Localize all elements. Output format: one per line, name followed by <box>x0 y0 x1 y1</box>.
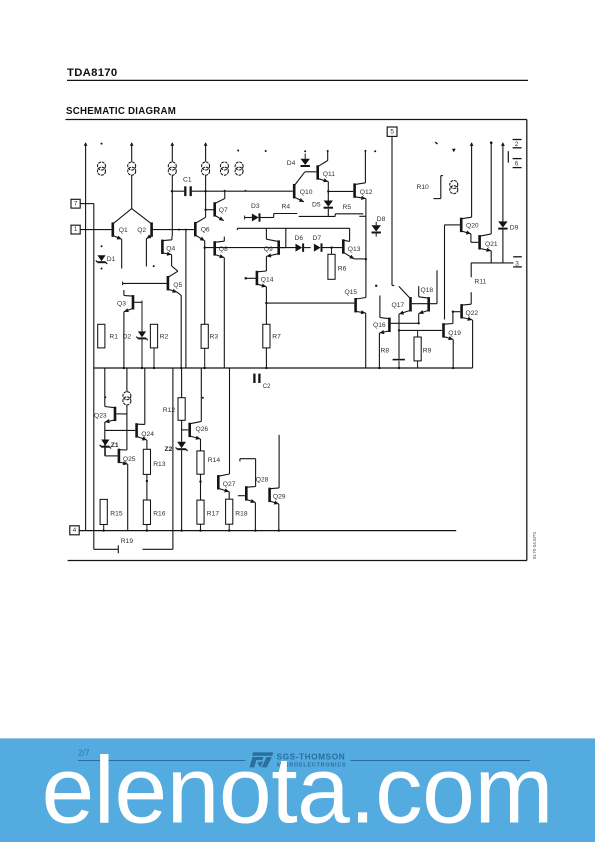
resistor R12 <box>181 368 183 398</box>
Q8 emitter wire down to ground rail <box>223 258 225 368</box>
svg-text:D9: D9 <box>510 224 519 231</box>
svg-text:Q27: Q27 <box>223 481 236 488</box>
resistor R18 <box>226 499 233 524</box>
wire Q6 base node down to ground rail <box>185 230 187 368</box>
long wire upper bus <box>237 227 349 229</box>
resistor R19 circuit <box>93 531 95 550</box>
lower supply rail <box>79 530 456 532</box>
svg-text:Q23: Q23 <box>94 412 107 419</box>
figure frame bottom edge <box>68 560 527 562</box>
svg-text:SCHEMATIC DIAGRAM: SCHEMATIC DIAGRAM <box>66 106 176 117</box>
wire R12 to Z2 / Q26 base <box>181 420 183 442</box>
Q2 emitter wire down <box>145 239 147 267</box>
Q26 emitter wire to R14 <box>200 439 202 451</box>
Q19 collector wire up to Q22 base <box>452 312 454 324</box>
wire Q2 base to Q6 base <box>153 229 194 231</box>
Q20 base wire <box>445 224 460 226</box>
resistor R2 <box>150 324 157 348</box>
wire Q11 emitter node to Q12 base <box>328 190 353 192</box>
resistor R6 <box>331 248 333 255</box>
svg-text:R19: R19 <box>121 538 134 545</box>
wire D5 to R4/R5 row <box>327 209 329 217</box>
svg-text:D8: D8 <box>377 216 386 223</box>
svg-text:R9: R9 <box>423 347 432 354</box>
svg-text:R13: R13 <box>153 461 166 468</box>
Q22 collector wire / resistor R11 gap <box>470 292 472 304</box>
resistor R9 <box>417 330 419 337</box>
resistor R4 <box>260 217 274 219</box>
Q11 collector wire up <box>327 152 329 161</box>
svg-text:Q15: Q15 <box>345 289 358 296</box>
wire I8 to Q23/Q24 <box>126 405 128 445</box>
transistor Q29 <box>268 488 271 502</box>
svg-text:Q24: Q24 <box>141 431 154 438</box>
Q22 emitter wire to rail corner <box>472 320 474 368</box>
wire Q17 emitter node to Q19 base <box>399 329 442 331</box>
power rail left <box>85 143 87 531</box>
current source I8 <box>126 368 128 392</box>
svg-text:C1: C1 <box>183 177 192 184</box>
svg-text:5: 5 <box>390 129 394 136</box>
supply node dots <box>265 150 267 152</box>
wire stub above Q17/Q18 base <box>436 270 438 303</box>
transistor Q12 <box>353 183 356 197</box>
current source I5 <box>220 162 228 170</box>
zener D1 <box>101 245 103 247</box>
wire upper rail to R19 <box>172 368 174 549</box>
wire Z2 to lower rail <box>181 450 183 530</box>
pin 2 <box>513 139 522 141</box>
transistor Q11 <box>316 165 319 179</box>
wire R13 to R16 <box>146 474 148 500</box>
diode D4 <box>304 150 306 152</box>
resistor R13 <box>143 449 150 474</box>
Q15 emitter wire down to rail <box>365 313 367 368</box>
svg-text:4: 4 <box>73 527 77 534</box>
current source I6 <box>235 162 243 170</box>
transistor Q5 <box>167 276 170 290</box>
Q23 emitter wire down <box>104 422 106 456</box>
wire pin7 to rail B <box>80 203 94 205</box>
Q9 collector wire up to bus <box>265 228 267 239</box>
svg-text:Q9: Q9 <box>264 246 273 253</box>
header rule <box>67 79 528 81</box>
wire C1 to Q10 base <box>192 190 293 192</box>
Q13 collector wire up to bus <box>349 228 351 241</box>
resistor R8 (bar) <box>393 359 405 361</box>
Q16 collector wire up <box>379 296 381 318</box>
svg-text:C2: C2 <box>263 384 271 390</box>
svg-text:Z2: Z2 <box>165 446 173 453</box>
svg-text:Q25: Q25 <box>123 456 136 463</box>
svg-text:D5: D5 <box>312 201 321 208</box>
resistor R15 <box>100 499 107 524</box>
current source I2 <box>131 143 133 162</box>
node dot below Q2 <box>153 265 155 267</box>
zener Z2 <box>177 442 186 448</box>
capacitor C2 <box>253 374 255 383</box>
transistor Q16 <box>388 318 391 332</box>
Q4 collector stub to I3 <box>171 236 173 240</box>
svg-text:Q13: Q13 <box>348 246 361 253</box>
Q20 emitter to Q21 base <box>470 234 472 243</box>
transistor Q23 <box>114 407 117 421</box>
svg-text:Q7: Q7 <box>219 207 228 214</box>
svg-text:Q28: Q28 <box>256 476 269 483</box>
svg-text:R16: R16 <box>153 510 166 517</box>
Q9 base stub <box>280 247 286 249</box>
footer rule right <box>350 760 530 762</box>
wire I2 to Q1/Q2 collectors <box>131 175 133 208</box>
current source I4 <box>205 143 207 162</box>
Q17 emitter wire down through R8 <box>398 314 400 359</box>
svg-text:8170-04.EPS: 8170-04.EPS <box>532 532 537 559</box>
transistor Q22 <box>460 304 463 318</box>
pin 6 <box>507 151 509 163</box>
wire Q20 base down to Q19 collector <box>444 225 446 320</box>
Q18 emitter wire down <box>418 314 420 324</box>
Q25 collector wire <box>126 445 128 450</box>
transistor Q19 <box>442 323 445 337</box>
Q24 base wire <box>105 429 135 431</box>
svg-text:R17: R17 <box>207 510 220 517</box>
svg-text:Q4: Q4 <box>166 245 175 252</box>
Q24 collector wire up to rail <box>144 368 146 424</box>
Q28 base stub <box>238 495 245 497</box>
transistor Q17 <box>409 297 412 311</box>
transistor Q7 <box>213 202 216 216</box>
Q21 collector wire up <box>490 143 492 234</box>
resistor R17 <box>197 500 204 524</box>
Q23 base stub <box>116 413 127 415</box>
svg-text:R18: R18 <box>235 510 248 517</box>
diode D7 <box>314 244 321 252</box>
Q25 base wire <box>105 455 118 457</box>
svg-text:R2: R2 <box>160 333 169 340</box>
svg-text:Q26: Q26 <box>196 426 209 433</box>
pin 5 <box>387 127 397 136</box>
Q11 emitter wire to D5 <box>327 182 329 201</box>
Q24 emitter wire to R13 <box>146 440 148 449</box>
svg-text:Z1: Z1 <box>111 442 119 449</box>
Q14 base wire <box>245 277 247 279</box>
transistor Q24 <box>135 423 138 437</box>
svg-text:elenota.com: elenota.com <box>42 737 554 842</box>
Q8 collector stub <box>223 237 225 242</box>
Q14 emitter wire <box>265 287 267 303</box>
Q17 base wire to Q18 <box>412 303 437 305</box>
Q27 emitter wire to R18 <box>228 492 230 499</box>
transistor Q26 <box>188 423 191 437</box>
svg-text:R15: R15 <box>110 510 123 517</box>
svg-text:R12: R12 <box>163 407 176 414</box>
Q11 base wire <box>305 171 317 173</box>
Q29 emitter wire down to rail <box>278 504 280 531</box>
transistor Q13 <box>342 239 345 253</box>
Q15 collector wire <box>365 292 367 298</box>
svg-text:R11: R11 <box>475 278 487 285</box>
transistor Q6 <box>194 222 197 236</box>
svg-text:R5: R5 <box>343 204 352 211</box>
Q5 base wire <box>123 282 167 284</box>
svg-text:Q21: Q21 <box>485 241 498 248</box>
svg-text:1: 1 <box>74 226 78 233</box>
Q28 collector wire (up and left) <box>255 459 257 487</box>
transistor Q25 <box>118 449 121 463</box>
Q27 collector wire up to rail <box>229 368 231 474</box>
R7 to ground rail <box>265 348 267 368</box>
wire Q16 base to Q18 emitter <box>391 322 419 324</box>
transistor Q1 <box>112 222 115 236</box>
svg-text:D3: D3 <box>251 203 260 210</box>
transistor Q27 <box>217 475 220 489</box>
svg-text:R7: R7 <box>272 333 281 340</box>
transistor Q21 <box>478 235 481 249</box>
svg-text:Q16: Q16 <box>373 322 386 329</box>
svg-text:Q17: Q17 <box>392 302 405 309</box>
wire Q9 emitter node <box>265 256 267 258</box>
capacitor C1 <box>172 190 184 192</box>
svg-text:Q1: Q1 <box>119 227 128 234</box>
transistor Q2 <box>150 222 153 236</box>
figure frame right edge <box>526 120 528 561</box>
Q25 emitter wire down to rail <box>127 464 129 530</box>
Q14 collector wire <box>265 259 267 272</box>
svg-text:Q18: Q18 <box>421 287 434 294</box>
resistor R16 <box>143 500 150 525</box>
svg-text:7: 7 <box>74 200 78 207</box>
svg-text:R6: R6 <box>338 266 347 273</box>
Q15 base wire <box>266 302 354 304</box>
Q13 emitter wire to Q12 emitter line <box>354 258 366 260</box>
svg-text:R1: R1 <box>109 333 118 340</box>
pin 4 <box>70 526 79 535</box>
diode D5 <box>324 201 333 207</box>
Q16 emitter wire down to rail <box>378 333 380 368</box>
Q12 collector wire up <box>364 152 366 183</box>
svg-text:R14: R14 <box>208 457 221 464</box>
pin 3 <box>513 256 522 258</box>
diode D6 <box>296 244 303 252</box>
Q6 emitter wire down to R3 <box>204 241 206 324</box>
svg-text:D7: D7 <box>313 235 322 242</box>
current source I7 <box>450 181 458 189</box>
wire R4 to R5 <box>299 215 336 217</box>
diode D9 <box>502 143 504 222</box>
Q1 emitter wire down <box>121 239 123 268</box>
wire R14 to R17 <box>200 474 202 500</box>
Q12 emitter wire down <box>365 199 367 292</box>
svg-text:R3: R3 <box>210 333 219 340</box>
transistor Q14 <box>256 271 259 285</box>
resistor R5 <box>334 214 336 217</box>
svg-text:Q20: Q20 <box>466 223 479 230</box>
pin 7 <box>71 199 80 208</box>
wire I4 down to Q6 collector <box>205 175 207 217</box>
wire diode string <box>205 247 296 249</box>
Q26 collector wire up to rail <box>200 368 202 421</box>
transistor Q9 <box>277 240 280 254</box>
ground rail <box>94 367 473 369</box>
wire down to R7 <box>265 303 267 324</box>
resistor R3 <box>201 324 208 348</box>
ST logo <box>250 752 274 767</box>
transistor Q8 <box>213 241 216 255</box>
resistor R14 <box>197 451 204 474</box>
rail B from pin 7 <box>93 204 95 531</box>
Q3 base stub <box>134 301 142 303</box>
svg-text:D4: D4 <box>287 160 296 167</box>
Q20 collector wire up <box>471 143 473 217</box>
svg-text:R10: R10 <box>417 184 430 191</box>
svg-text:R8: R8 <box>381 347 390 354</box>
Q3 collector stub <box>123 290 125 296</box>
transistor Q4 <box>161 240 164 254</box>
svg-text:Q2: Q2 <box>137 227 146 234</box>
Q19 emitter wire to rail <box>452 340 454 369</box>
svg-text:Q12: Q12 <box>360 189 373 196</box>
resistor R10 (bracket) <box>440 176 442 199</box>
current source I1 <box>98 162 106 170</box>
wire pin1 to Q1 base <box>80 229 111 231</box>
Q29 collector wire up <box>278 435 280 488</box>
zener D2 <box>141 304 143 331</box>
wire I3 down to Q4 collector <box>171 175 173 236</box>
resistor R1 <box>98 324 105 348</box>
svg-text:Q22: Q22 <box>466 310 479 317</box>
diode D3 <box>244 216 246 220</box>
footer banner <box>0 738 595 842</box>
diode D8 <box>375 222 377 226</box>
resistor R7 <box>263 324 270 348</box>
wire bus down to Q9 base <box>285 228 287 247</box>
svg-text:2: 2 <box>515 141 519 148</box>
Q3 emitter wire down to rail <box>123 312 125 368</box>
svg-text:TDA8170: TDA8170 <box>67 67 117 79</box>
transistor Q15 <box>354 298 357 312</box>
transistor Q3 <box>132 295 135 309</box>
heading rule / figure frame top <box>66 119 527 121</box>
Q4 emitter wire to Q5 collector <box>171 255 173 266</box>
transistor Q28 <box>245 486 248 500</box>
svg-text:Q11: Q11 <box>323 171 335 178</box>
Q7 collector wire up to C1 net <box>224 191 226 198</box>
svg-text:6: 6 <box>515 161 519 168</box>
pin 1 <box>71 225 80 234</box>
Q21 emitter wire down <box>490 251 492 263</box>
transistor Q10 <box>293 184 296 198</box>
svg-text:Q5: Q5 <box>173 282 182 289</box>
current source I3 <box>171 143 173 162</box>
svg-text:Q10: Q10 <box>300 189 313 196</box>
svg-text:Q14: Q14 <box>261 277 274 284</box>
svg-text:Q29: Q29 <box>273 493 286 500</box>
Q18 collector wire up <box>418 286 420 297</box>
R19 right wire <box>143 548 173 550</box>
zener Z1 <box>101 440 109 446</box>
svg-text:D2: D2 <box>123 333 132 340</box>
svg-text:Q3: Q3 <box>117 301 126 308</box>
wire pin 5 down to Q17 collector <box>391 137 393 286</box>
transistor Q20 <box>460 218 463 232</box>
svg-text:Q19: Q19 <box>448 330 461 337</box>
svg-text:D1: D1 <box>107 256 116 263</box>
footer rule left <box>78 760 245 762</box>
Q5 emitter wire down to rail <box>177 292 181 295</box>
transistor Q18 <box>427 297 430 311</box>
Q7 base stub <box>206 209 214 211</box>
wire output node to pin 3 <box>471 262 514 264</box>
Q28 emitter wire down to rail <box>254 503 256 531</box>
frame tick <box>435 142 437 144</box>
svg-text:R4: R4 <box>282 204 291 211</box>
svg-text:D6: D6 <box>295 235 304 242</box>
Q23 collector wire up to rail <box>104 368 106 407</box>
svg-text:Q6: Q6 <box>201 227 210 234</box>
